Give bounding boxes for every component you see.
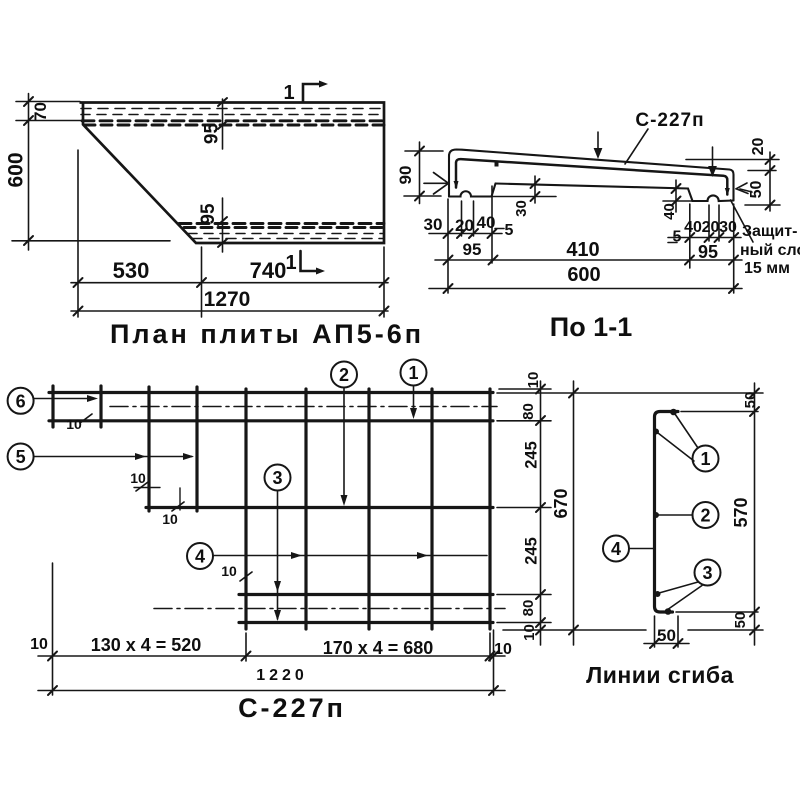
svg-text:С-227п: С-227п [635,110,704,131]
svg-text:10: 10 [525,372,542,389]
section note: protective layer 15 mm with leader [731,200,800,277]
svg-text:50: 50 [732,612,749,629]
fold right dimension 50 570 50 [731,383,759,645]
svg-text:410: 410 [566,239,599,261]
svg-text:4: 4 [195,547,205,567]
svg-text:530: 530 [113,258,150,283]
svg-text:С-227п: С-227п [238,693,346,723]
mesh position circle 2 with leader [331,362,357,507]
svg-text:10: 10 [162,511,178,527]
svg-text:5: 5 [673,229,682,246]
svg-text:95: 95 [698,242,718,262]
svg-text:20: 20 [455,216,474,235]
svg-text:10: 10 [130,470,146,486]
mesh position circle 1 with leader [401,360,427,420]
svg-text:30: 30 [719,219,737,236]
section 1-1: concrete profile outline [449,150,734,202]
svg-text:40: 40 [661,203,678,220]
plan section mark 1 top [283,81,328,105]
svg-text:40: 40 [684,219,702,236]
svg-text:30: 30 [513,200,530,217]
svg-text:50: 50 [748,181,765,199]
svg-text:30: 30 [424,215,443,234]
mesh mini dim 10 at bar 4 [162,488,184,527]
svg-text:10: 10 [66,416,82,432]
mesh mini dim 10 top-left [66,414,92,432]
mesh C-227p: horizontal bars [49,393,493,623]
svg-text:80: 80 [520,403,537,420]
mesh C-227p: vertical bars [53,386,490,629]
svg-text:1220: 1220 [256,667,308,684]
mesh mini dim 10 at bar 3 [130,470,160,491]
plan dimension 70 and 600 left [5,94,171,251]
mesh position circle 6 with leader [8,388,98,414]
svg-text:130 x 4 = 520: 130 x 4 = 520 [91,635,202,655]
svg-text:1: 1 [408,363,418,383]
svg-text:50: 50 [742,392,759,409]
svg-text:1: 1 [285,252,296,274]
svg-text:50: 50 [657,626,676,645]
svg-text:План плиты АП5-6п: План плиты АП5-6п [110,319,424,349]
mesh mini dim 10 at circle 4 [221,563,252,581]
svg-text:20: 20 [750,138,767,156]
svg-text:3: 3 [272,468,282,488]
svg-text:245: 245 [523,441,541,469]
section label C-227p with leader [625,110,705,164]
section dimension line 600 [429,204,742,293]
section mid dimension 30 [489,176,556,217]
fold lines: bent mesh channel profile [655,412,679,613]
section dimension 90 with arrow [396,142,443,204]
svg-text:600: 600 [5,152,28,187]
mesh position circle 5 with leader [8,444,194,470]
svg-text:80: 80 [520,600,537,617]
svg-text:40: 40 [477,213,496,232]
section dimension line 95 410 95 [435,239,742,265]
svg-text:5: 5 [505,222,514,239]
fold position circle 1 with leaders [658,414,719,472]
svg-text:ный слой: ный слой [740,242,800,259]
mesh bottom dimension line 130x4 170x4 [30,563,512,695]
svg-text:95: 95 [202,123,223,145]
svg-text:10: 10 [221,563,237,579]
fold points (dots) [653,409,677,615]
svg-text:5: 5 [16,447,26,467]
plan hatch: bottom mesh strip dashed lines [179,224,384,239]
svg-text:15 мм: 15 мм [744,260,790,277]
svg-text:3: 3 [702,563,712,583]
svg-text:245: 245 [523,537,541,565]
fold bottom dimension 60 [644,616,689,648]
mesh position circle 3 with leader [265,465,291,622]
svg-text:670: 670 [551,488,571,518]
svg-text:1270: 1270 [204,288,251,311]
svg-text:2: 2 [700,506,710,526]
svg-text:20: 20 [702,219,720,236]
fold position circle 3 with leaders [659,560,721,611]
fold position circle 2 with leader [658,502,719,528]
svg-text:10: 10 [521,624,538,641]
svg-text:95: 95 [463,240,482,259]
svg-text:2: 2 [339,365,349,385]
svg-text:4: 4 [611,539,621,559]
svg-text:95: 95 [198,203,219,225]
mesh centerline top [110,406,497,408]
svg-text:Защит-: Защит- [742,223,797,240]
svg-text:10: 10 [494,641,512,658]
svg-text:90: 90 [396,166,415,185]
svg-text:10: 10 [30,636,48,653]
mesh centerline bottom [154,608,505,610]
plan dimension 95 top [202,98,228,149]
plan view: slab AP5-6p outline [80,103,385,244]
svg-text:6: 6 [16,392,26,412]
svg-text:Линии сгиба: Линии сгиба [586,662,734,688]
section right-block dimension 40 [661,180,694,220]
section down arrow at mesh (right) [708,147,717,177]
fold extension lines [676,412,758,613]
mesh right extension lines [497,389,763,630]
mesh position circle 4 with leader [187,543,487,569]
svg-text:1: 1 [700,449,710,469]
svg-text:600: 600 [567,264,600,286]
plan dimension 95 bottom [198,198,227,252]
mesh right dimension chain 10 80 245 245 80 10 [520,372,545,645]
svg-text:1: 1 [283,82,294,104]
section right edge dimensions 20 and 50 [686,138,780,212]
plan section mark 1 bottom [285,251,325,275]
svg-text:По 1-1: По 1-1 [550,312,632,342]
fold position circle 4 with leader [603,536,653,562]
mesh overall dimension 1220 [38,667,505,695]
section down arrow at mesh (mid) [594,132,603,159]
plan hatch: top mesh strip dashed lines [81,109,384,126]
svg-text:170 x 4 = 680: 170 x 4 = 680 [323,638,434,658]
section 1-1: mesh C-227p line inside profile [454,159,730,196]
section bottom-right dimension chain 5 40 20 30 [668,204,741,268]
svg-text:70: 70 [31,102,50,121]
mesh overall dimension 670 [551,381,578,645]
svg-text:570: 570 [731,497,751,527]
section bottom-left dimension chain 30 20 40 5 [424,186,514,293]
plan bottom dimensions 530 740 1270 [71,150,389,317]
svg-text:740: 740 [250,258,287,283]
section big left arrow [424,173,449,195]
